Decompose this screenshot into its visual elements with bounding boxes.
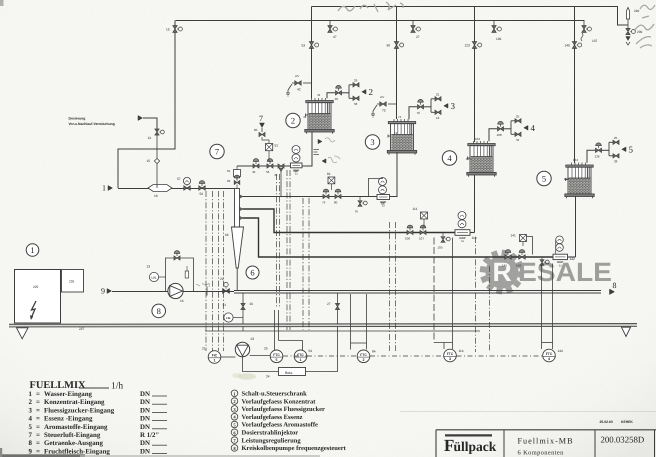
svg-text:70: 70 [417, 111, 421, 115]
svg-text:53: 53 [302, 44, 306, 48]
wire 14-15 [156, 135, 158, 158]
svg-text:137: 137 [592, 39, 598, 43]
output arrow 8 [610, 289, 615, 295]
wire top header B [312, 7, 629, 26]
valve 73 + strainer [388, 103, 396, 105]
svg-text:=: = [36, 424, 40, 431]
svg-text:51: 51 [275, 144, 279, 148]
wire branch 26 [242, 293, 244, 331]
valve 27 [335, 304, 339, 310]
valve 49 [253, 164, 259, 168]
input arrow 1 [108, 186, 113, 191]
pencil arrow left [322, 159, 326, 163]
wire feed drop x=574.5 [574, 7, 576, 164]
svg-text:=: = [36, 399, 40, 406]
svg-text:Vorlaufgefaess Essenz: Vorlaufgefaess Essenz [242, 414, 303, 421]
svg-text:225: 225 [33, 285, 39, 289]
vessel B2 top stubs [311, 98, 313, 101]
vessel B3 dip tube [409, 124, 411, 151]
svg-text:240: 240 [634, 9, 640, 13]
svg-text:227: 227 [79, 327, 85, 331]
svg-text:21: 21 [436, 92, 440, 96]
svg-text:18: 18 [154, 194, 158, 198]
valve dome 48 [336, 91, 342, 95]
valve dome 70 [418, 105, 424, 109]
svg-text:FUELLMIX: FUELLMIX [30, 380, 86, 391]
svg-text:107: 107 [419, 237, 424, 241]
svg-text:Steuerluft-Eingang: Steuerluft-Eingang [44, 432, 101, 439]
svg-text:71: 71 [394, 131, 398, 135]
svg-text:80: 80 [334, 201, 338, 205]
svg-text:FTC: FTC [273, 353, 280, 357]
vessel B3 tubes [394, 124, 396, 135]
vessel B5 top stubs [571, 163, 573, 166]
inline filter 18 [148, 185, 172, 192]
svg-text:25: 25 [264, 347, 268, 351]
svg-text:Essenz -Eingang: Essenz -Eingang [44, 416, 93, 423]
smudge [238, 373, 256, 379]
title block frame [436, 429, 656, 431]
svg-text:21: 21 [202, 347, 206, 351]
gauges station5 [556, 236, 564, 244]
valve upper 25 [613, 140, 619, 144]
svg-text:57: 57 [177, 177, 181, 181]
valve upper 29 [353, 83, 359, 87]
vessel B3 top flange [388, 122, 415, 124]
svg-text:2: 2 [363, 358, 365, 362]
gauges station4 [458, 212, 466, 220]
control valve 59 [199, 186, 205, 190]
drain arrow below 239 [626, 37, 630, 41]
svg-text:21: 21 [223, 303, 227, 307]
svg-text:=: = [36, 440, 40, 447]
svg-text:Dosierstrahlinjektor: Dosierstrahlinjektor [242, 430, 299, 437]
svg-text:6: 6 [250, 268, 254, 278]
svg-text:=: = [36, 391, 40, 398]
wire branch 27 [337, 293, 339, 331]
pump23 to Beta loop [243, 357, 279, 372]
pencil mark 9a [196, 283, 209, 287]
svg-text:KEHEK: KEHEK [621, 420, 633, 424]
wire Beta out [306, 330, 338, 372]
manifold outlet nubs [240, 195, 243, 199]
vessel B5 tubes [571, 167, 573, 178]
arrow dosierung [138, 116, 143, 121]
wire line 9b [183, 291, 234, 293]
vessel B2 tubes [311, 103, 313, 114]
feed arrow 3 [444, 103, 448, 108]
drain valve 105 [442, 233, 444, 236]
wire inlet manifold 3 [424, 106, 432, 108]
svg-text:7: 7 [29, 432, 33, 439]
svg-text:WV: WV [295, 75, 299, 78]
check valve 15 [154, 158, 159, 163]
vessel B2 liquid [309, 114, 330, 130]
svg-text:Leistungsregulierung: Leistungsregulierung [242, 437, 302, 444]
valve 123 [472, 42, 476, 49]
svg-text:54: 54 [309, 349, 313, 353]
svg-text:=: = [36, 432, 40, 439]
vessel B3 body [391, 124, 414, 151]
svg-text:5: 5 [629, 145, 634, 155]
valve 60 [259, 132, 265, 136]
instr FTC 2 [357, 350, 370, 363]
svg-text:66: 66 [225, 233, 229, 237]
position circle 4 [442, 151, 456, 165]
valve upper 21 [435, 97, 441, 101]
svg-text:4: 4 [29, 416, 33, 423]
svg-text:45: 45 [274, 173, 278, 177]
svg-text:84: 84 [372, 350, 376, 354]
svg-text:DN: DN [140, 399, 150, 406]
valve 56 [267, 164, 273, 168]
pneumatic dash lines left [205, 191, 207, 351]
signal feeds FTC4 [541, 264, 543, 343]
valve 98 [394, 42, 398, 49]
valve 29 [223, 289, 230, 294]
svg-text:3: 3 [451, 101, 456, 111]
valve 146 [519, 255, 525, 259]
wire vessel2 drain [302, 132, 312, 166]
flange tick [206, 287, 208, 296]
svg-text:200.03258D: 200.03258D [601, 435, 645, 445]
wire s5 dosing line [243, 218, 554, 257]
svg-text:62: 62 [227, 179, 231, 183]
svg-text:23: 23 [251, 337, 255, 341]
svg-text:Wasser-Eingang: Wasser-Eingang [44, 391, 93, 398]
svg-text:1: 1 [214, 359, 216, 363]
valve dome 106 [407, 230, 413, 234]
svg-text:146: 146 [516, 264, 521, 268]
svg-text:73: 73 [382, 109, 386, 113]
vessel B4 tubes [473, 146, 475, 157]
wire inlet riser vessel 5 [587, 150, 595, 163]
svg-text:60: 60 [254, 128, 258, 132]
signal chain [221, 356, 235, 358]
svg-text:Aromastoffe-Eingang: Aromastoffe-Eingang [44, 424, 108, 431]
svg-text:88: 88 [381, 202, 385, 206]
svg-text:5: 5 [276, 358, 278, 362]
vessel B5 side stub [566, 179, 569, 181]
vessel B4 body [470, 146, 493, 173]
wire manifold feed [118, 188, 235, 190]
wire feed drop x=474.5 [474, 7, 476, 143]
pump box 110 [455, 230, 470, 236]
box 226 [62, 270, 84, 293]
valve lower 58 [353, 96, 359, 100]
wire 51 links [268, 151, 270, 161]
svg-text:7: 7 [259, 114, 263, 123]
svg-text:2: 2 [369, 87, 374, 97]
vessel B3 liquid [391, 135, 412, 151]
control cabinet 225 [15, 270, 61, 324]
wire vessel5 drain [575, 196, 577, 257]
svg-text:8: 8 [29, 440, 33, 447]
vessel B5 bottom flange [565, 194, 594, 197]
svg-text:26: 26 [250, 302, 254, 306]
valve WV 42 + strainer [303, 82, 312, 84]
vessel B4 dip tube [488, 146, 490, 173]
svg-text:FTC: FTC [360, 353, 367, 357]
svg-text:R 1/2″: R 1/2″ [140, 432, 160, 439]
feed arrow 2 [362, 89, 366, 94]
svg-text:134: 134 [573, 158, 578, 162]
svg-text:DN: DN [140, 407, 150, 414]
svg-text:LSL: LSL [226, 317, 231, 320]
svg-text:144: 144 [558, 349, 564, 353]
position circle 7 [210, 144, 224, 158]
wire s2 line [237, 165, 291, 167]
svg-text:1/h: 1/h [111, 382, 123, 392]
solenoid box 81 [328, 177, 335, 184]
valve 62 dome [234, 181, 240, 185]
wire top header A [176, 20, 585, 22]
wire inlet riser vessel 2 [327, 93, 335, 99]
vessel B4 bottom flange [467, 172, 496, 175]
svg-text:49: 49 [252, 170, 256, 174]
svg-text:14: 14 [148, 136, 152, 140]
svg-text:WV: WV [380, 96, 384, 99]
svg-text:4: 4 [548, 357, 550, 361]
svg-text:2: 2 [291, 116, 295, 126]
svg-text:5: 5 [542, 174, 546, 184]
svg-text:24: 24 [266, 375, 270, 379]
svg-text:Kreiskolbenpumpe frequenzgest: Kreiskolbenpumpe frequenzgesteuert [242, 445, 347, 452]
svg-text:106: 106 [405, 237, 410, 241]
floor line upper [9, 323, 637, 326]
LSL 22 [224, 313, 233, 322]
valve lower 12 [435, 110, 441, 114]
svg-text:34: 34 [516, 138, 520, 142]
svg-text:2: 2 [29, 399, 33, 406]
svg-text:61: 61 [227, 169, 231, 173]
wire line 9 [112, 291, 168, 293]
flow meter 57 [184, 186, 190, 190]
gauges station2 [292, 146, 300, 154]
svg-text:25: 25 [614, 136, 618, 140]
svg-text:DN: DN [140, 440, 150, 447]
vessel B2 side stub [306, 114, 309, 116]
drain header line [205, 330, 480, 332]
svg-text:123: 123 [465, 44, 471, 48]
wire dosierung drop [143, 118, 157, 129]
svg-text:LSL: LSL [151, 276, 156, 279]
vessel B2 dip tube [326, 103, 328, 130]
svg-text:15: 15 [147, 159, 151, 163]
valve 137 [583, 21, 585, 26]
floor line lower [9, 325, 637, 328]
valve 27 top [412, 21, 414, 26]
svg-text:27: 27 [416, 35, 420, 39]
svg-text:16: 16 [180, 299, 184, 303]
wire riser line A left end [174, 21, 176, 26]
border line above title block [400, 411, 656, 413]
wire inlet manifold 5 [602, 149, 610, 151]
svg-text:81: 81 [327, 172, 331, 176]
valve 15 [173, 26, 177, 33]
svg-text:13: 13 [147, 265, 151, 269]
wire inlet riser vessel 4 [489, 129, 497, 142]
pneumatic dash lines mid [276, 174, 278, 308]
svg-text:DN: DN [140, 391, 150, 398]
wire 45 down [280, 172, 282, 197]
valve dome 136 [596, 148, 602, 152]
svg-text:1: 1 [102, 184, 106, 193]
drain valve 76 [359, 197, 361, 200]
svg-text:DN: DN [140, 448, 150, 455]
svg-text:48: 48 [335, 97, 339, 101]
svg-text:Dosierung: Dosierung [69, 117, 86, 121]
svg-text:27: 27 [327, 302, 331, 306]
svg-text:3: 3 [29, 407, 33, 414]
valve upper 25 [515, 119, 521, 123]
svg-text:üllpack: üllpack [454, 439, 497, 454]
svg-text:145: 145 [502, 264, 507, 268]
position circle 1 [26, 244, 39, 257]
wire inlet manifold 4 [504, 128, 512, 130]
valve 26 [241, 304, 245, 310]
svg-text:Vorlaufgefaess Aromastoffe: Vorlaufgefaess Aromastoffe [242, 422, 318, 429]
vessel B3 top stubs [393, 119, 395, 122]
instr FTC 4 [543, 349, 556, 362]
svg-text:25: 25 [516, 114, 520, 118]
svg-text:DN: DN [140, 424, 150, 431]
position circle 5 [537, 171, 551, 185]
vessel B5 body [568, 167, 591, 194]
signal feeds FTC3 [433, 238, 435, 343]
valve dome 107 [420, 230, 426, 234]
vessel B5 liquid [569, 178, 590, 194]
svg-text:98: 98 [387, 44, 391, 48]
gauges station3 [379, 178, 387, 186]
svg-text:111: 111 [413, 207, 418, 211]
vessel B2 body [308, 103, 331, 130]
injector cone 66 [232, 227, 244, 268]
instr FIC 1 [208, 351, 221, 364]
svg-text:105: 105 [438, 246, 443, 250]
instr FTC 1 [294, 350, 307, 363]
input arrow 9 [107, 289, 112, 294]
valve 140 [572, 42, 576, 49]
svg-text:76: 76 [355, 210, 359, 214]
valve lower 34 [515, 132, 521, 136]
box 141 [520, 235, 527, 242]
wire injector tail [236, 268, 238, 291]
svg-text:FTC: FTC [447, 352, 454, 356]
svg-text:43: 43 [303, 115, 307, 119]
wire feed drop x=311.5 [311, 7, 313, 99]
svg-text:3: 3 [370, 137, 374, 147]
valve 145 [505, 255, 511, 259]
svg-text:136: 136 [595, 154, 600, 158]
wire 15 down [156, 164, 158, 188]
pencil arrow right [318, 139, 322, 143]
support triangle right [622, 327, 631, 336]
svg-text:52: 52 [294, 169, 298, 173]
svg-text:9: 9 [101, 287, 105, 296]
pencil note top right [634, 24, 654, 48]
svg-text:FIC: FIC [212, 354, 218, 358]
resale watermark gear [480, 250, 525, 295]
svg-text:79: 79 [322, 201, 326, 205]
vessel B3 bottom flange [387, 150, 416, 153]
vessel B2 top flange [306, 101, 333, 103]
svg-text:101: 101 [466, 157, 471, 161]
valve 53 [309, 42, 313, 49]
bypass valve [174, 256, 180, 260]
valve dome 108 [498, 127, 504, 131]
pump 16 Kreiskolbenpumpe [168, 283, 183, 298]
svg-text:4: 4 [531, 123, 536, 133]
svg-text:42: 42 [297, 88, 301, 92]
wire vessel4 drain [474, 175, 476, 233]
wire inlet manifold 2 [342, 92, 350, 94]
wire s3 dosing line [243, 196, 378, 198]
svg-text:141: 141 [511, 234, 517, 238]
svg-text:Getraenke-Ausgang: Getraenke-Ausgang [44, 440, 104, 447]
svg-text:Vorlaufgefaess Konzentrat: Vorlaufgefaess Konzentrat [242, 398, 317, 405]
valve 14 [155, 129, 159, 135]
wire 141 loop [527, 237, 533, 255]
wire vessel3 drain [390, 152, 398, 197]
scan mark top left [0, 0, 4, 6]
wire feed drop x=396.5 [396, 7, 398, 120]
svg-text:56: 56 [266, 170, 270, 174]
svg-text:239: 239 [637, 30, 643, 34]
svg-text:1: 1 [29, 391, 33, 398]
svg-text:=: = [36, 407, 40, 414]
vessel B3 side stub [388, 135, 391, 137]
wire s4 dosing line [243, 209, 456, 233]
svg-text:226: 226 [69, 280, 75, 284]
signal feeds FTC2 [350, 294, 352, 343]
svg-text:29: 29 [354, 78, 358, 82]
svg-text:15: 15 [166, 28, 170, 32]
svg-text:140: 140 [565, 44, 571, 48]
pump bypass loop [166, 258, 194, 291]
legend rows right circled [231, 390, 238, 397]
svg-text:Konzentrat-Eingang: Konzentrat-Eingang [44, 399, 105, 406]
pencil note top center [338, 2, 403, 12]
svg-text:130: 130 [564, 177, 569, 181]
solenoid box 51 [266, 144, 273, 151]
wire product line 8 lower [234, 292, 601, 294]
vessel B4 side stub [468, 157, 471, 159]
valve 239 [627, 25, 629, 28]
three-way valve 45 [278, 164, 284, 168]
svg-text:6 Komponenten: 6 Komponenten [518, 450, 565, 457]
svg-text:44: 44 [317, 93, 321, 97]
floor band [9, 324, 637, 327]
svg-text:Schalt-u.Steuerschrank: Schalt-u.Steuerschrank [242, 391, 308, 398]
instr FTC 5 [270, 350, 283, 363]
pump box 82 [377, 195, 390, 200]
svg-text:Vorlaufgefaess Fluessigzucker: Vorlaufgefaess Fluessigzucker [242, 406, 325, 413]
bypass loop s3 [369, 178, 383, 197]
drain level marks [314, 149, 320, 151]
Beta box [279, 368, 306, 376]
vessel B4 top flange [468, 144, 495, 146]
pump 23 [235, 342, 249, 356]
pneumatic dash lines right [475, 237, 477, 352]
position circle 3 [365, 135, 379, 149]
valve 47 [329, 21, 331, 26]
wire product line 8 upper [234, 290, 601, 292]
wire riser down-left [118, 33, 175, 189]
svg-text:1: 1 [300, 358, 302, 362]
support triangle left [17, 328, 29, 339]
svg-text:Beta: Beta [285, 371, 292, 375]
